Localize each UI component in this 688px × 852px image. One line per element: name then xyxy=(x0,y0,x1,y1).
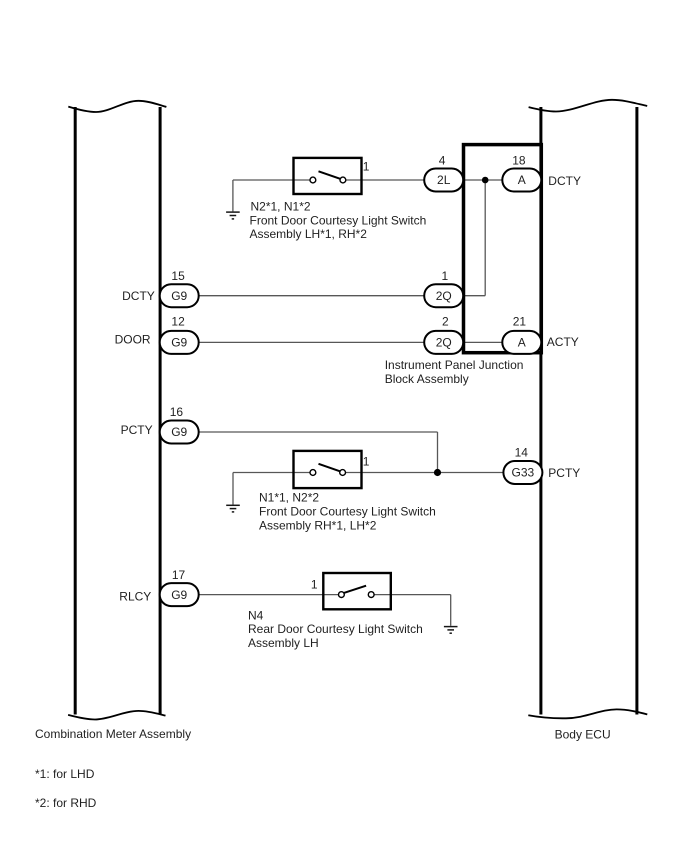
svg-text:G9: G9 xyxy=(171,588,187,602)
svg-text:17: 17 xyxy=(172,568,186,582)
svg-text:2: 2 xyxy=(442,315,449,329)
switch N1 blade xyxy=(319,464,341,472)
connector pin A ACTY xyxy=(502,331,541,354)
wire switch N1 right lead to G33 xyxy=(346,472,504,474)
svg-text:16: 16 xyxy=(170,405,184,419)
svg-text:1: 1 xyxy=(311,578,318,592)
svg-text:ACTY: ACTY xyxy=(547,335,579,349)
svg-text:N4: N4 xyxy=(248,608,264,622)
svg-text:2Q: 2Q xyxy=(436,289,452,303)
svg-text:PCTY: PCTY xyxy=(548,466,580,480)
connector pin G33 PCTY xyxy=(503,461,542,484)
connector pin G9 PCTY xyxy=(160,421,199,444)
svg-text:Combination Meter Assembly: Combination Meter Assembly xyxy=(35,727,191,741)
svg-text:G9: G9 xyxy=(171,425,187,439)
svg-text:1: 1 xyxy=(441,269,448,283)
svg-text:DOOR: DOOR xyxy=(115,333,151,347)
switch N4 Rear Door Courtesy Light Switch box xyxy=(323,573,391,609)
junction block Instrument Panel Junction Block Assembly xyxy=(464,145,542,353)
switch N2 contacts xyxy=(310,177,316,183)
switch N4 blade xyxy=(344,586,366,593)
switch N1 contacts xyxy=(310,470,316,476)
harness Combination Meter Assembly right line xyxy=(159,107,162,715)
wire ground drop at switch N2 xyxy=(232,180,234,211)
wire G9 PCTY vertical drop xyxy=(437,432,439,473)
wire ground drop at switch N4 xyxy=(450,595,452,626)
harness Combination Meter Assembly left line xyxy=(74,107,77,715)
connector pin 2Q row 1 xyxy=(424,284,463,307)
junction node on DCTY branch xyxy=(482,177,489,184)
connector pin 2Q row 2 xyxy=(424,331,463,354)
svg-text:DCTY: DCTY xyxy=(548,174,581,188)
svg-text:A: A xyxy=(518,173,526,187)
svg-text:Assembly LH*1, RH*2: Assembly LH*1, RH*2 xyxy=(250,227,368,241)
svg-text:Rear Door Courtesy Light Switc: Rear Door Courtesy Light Switch xyxy=(248,622,423,636)
svg-text:12: 12 xyxy=(171,315,185,329)
svg-text:18: 18 xyxy=(512,153,526,167)
svg-text:DCTY: DCTY xyxy=(122,289,155,303)
svg-text:4: 4 xyxy=(439,153,446,167)
svg-text:Front Door Courtesy Light Swit: Front Door Courtesy Light Switch xyxy=(259,505,436,519)
harness Body ECU top wave xyxy=(529,100,648,112)
svg-text:1: 1 xyxy=(363,159,370,173)
svg-text:15: 15 xyxy=(171,269,185,283)
svg-text:N1*1, N2*2: N1*1, N2*2 xyxy=(259,490,319,504)
switch N1 Front Door Courtesy Light Switch box xyxy=(294,451,362,488)
svg-text:14: 14 xyxy=(515,446,529,460)
svg-text:2Q: 2Q xyxy=(436,336,452,350)
wire switch N1 left lead xyxy=(233,472,310,474)
harness Combination Meter Assembly top wave xyxy=(68,101,166,112)
connector pin G9 DCTY xyxy=(160,284,199,307)
ground symbol at switch N2 xyxy=(226,212,240,219)
wire switch N4 right lead xyxy=(374,594,451,596)
svg-text:Instrument Panel Junction: Instrument Panel Junction xyxy=(385,358,524,372)
wire branch to pin 2Q row 1 xyxy=(463,295,485,297)
harness Body ECU bottom wave xyxy=(528,709,647,718)
switch N4 contacts xyxy=(339,592,345,598)
wire G9 DOOR to 2Q xyxy=(199,341,425,343)
wire switch N2 left lead xyxy=(233,179,310,181)
svg-text:PCTY: PCTY xyxy=(121,423,153,437)
wire G9 RLCY to switch N4 xyxy=(199,594,339,596)
wire 2Q to pin A ACTY xyxy=(463,341,502,343)
switch N2 blade xyxy=(319,171,341,179)
switch N2 Front Door Courtesy Light Switch box xyxy=(294,158,362,194)
svg-text:G9: G9 xyxy=(171,289,187,303)
svg-text:G9: G9 xyxy=(171,336,187,350)
harness Body ECU left line xyxy=(539,107,542,715)
harness Combination Meter Assembly bottom wave xyxy=(68,711,165,720)
svg-text:21: 21 xyxy=(513,315,527,329)
connector pin 2L xyxy=(424,169,463,192)
svg-text:Block Assembly: Block Assembly xyxy=(385,372,469,386)
svg-text:Assembly RH*1, LH*2: Assembly RH*1, LH*2 xyxy=(259,519,377,533)
svg-text:Assembly LH: Assembly LH xyxy=(248,636,319,650)
junction node on PCTY branch xyxy=(434,469,441,476)
connector pin A DCTY xyxy=(502,169,541,192)
connector pin G9 RLCY xyxy=(160,583,199,606)
connector pin G9 DOOR xyxy=(160,331,199,354)
svg-text:1: 1 xyxy=(363,454,370,468)
svg-text:A: A xyxy=(518,336,526,350)
svg-text:Front Door Courtesy Light Swit: Front Door Courtesy Light Switch xyxy=(250,213,427,227)
harness Body ECU right line xyxy=(635,107,638,715)
ground symbol at switch N4 xyxy=(444,627,458,634)
svg-text:RLCY: RLCY xyxy=(119,589,151,603)
wire ground drop at switch N1 xyxy=(232,473,234,505)
wire switch N2 right lead to pin 2L xyxy=(346,179,424,181)
ground symbol at switch N1 xyxy=(226,505,240,512)
svg-text:2L: 2L xyxy=(437,173,451,187)
svg-text:Body ECU: Body ECU xyxy=(555,727,611,741)
svg-text:N2*1, N1*2: N2*1, N1*2 xyxy=(251,200,311,214)
svg-text:*2: for RHD: *2: for RHD xyxy=(35,796,97,810)
wire vertical branch inside junction block xyxy=(484,180,486,296)
wire G9 PCTY horizontal xyxy=(199,431,438,433)
wire pin 2L to pin A DCTY xyxy=(463,179,502,181)
svg-text:*1: for LHD: *1: for LHD xyxy=(35,767,95,781)
svg-text:G33: G33 xyxy=(512,466,535,480)
wire G9 DCTY to 2Q xyxy=(199,295,425,297)
